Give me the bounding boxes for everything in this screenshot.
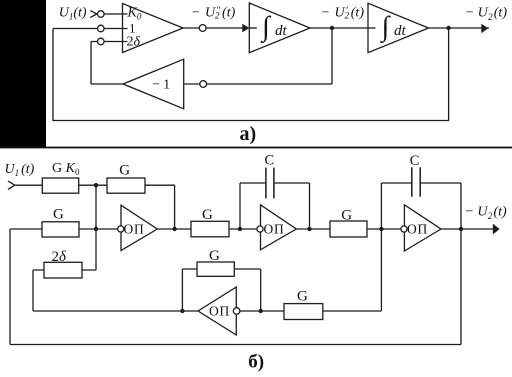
svg-text:−U′2(t): −U′2(t): [321, 6, 365, 21]
svg-text:U1(t): U1(t): [59, 6, 87, 22]
svg-text:ОП: ОП: [407, 222, 428, 237]
svg-text:ОП: ОП: [124, 222, 145, 237]
svg-text:ОП: ОП: [209, 304, 230, 319]
svg-text:G: G: [119, 162, 130, 178]
svg-text:G: G: [341, 208, 352, 224]
svg-text:2δ: 2δ: [52, 249, 68, 265]
svg-text:б): б): [248, 352, 264, 373]
svg-text:−U2(t): −U2(t): [465, 5, 508, 22]
svg-text:G: G: [202, 207, 213, 223]
svg-text:C: C: [265, 153, 275, 169]
svg-text:2δ: 2δ: [127, 35, 141, 50]
svg-text:−U2(t): −U2(t): [465, 205, 508, 222]
svg-text:dt: dt: [275, 23, 288, 39]
svg-text:a): a): [240, 123, 257, 145]
svg-text:G: G: [297, 289, 308, 305]
svg-text:G: G: [209, 248, 220, 264]
svg-text:C: C: [410, 153, 420, 169]
svg-text:−U″2(t): −U″2(t): [191, 6, 236, 21]
svg-text:G: G: [53, 207, 64, 223]
svg-text:1: 1: [129, 21, 136, 36]
svg-text:dt: dt: [394, 23, 407, 39]
svg-text:ОП: ОП: [264, 222, 285, 237]
